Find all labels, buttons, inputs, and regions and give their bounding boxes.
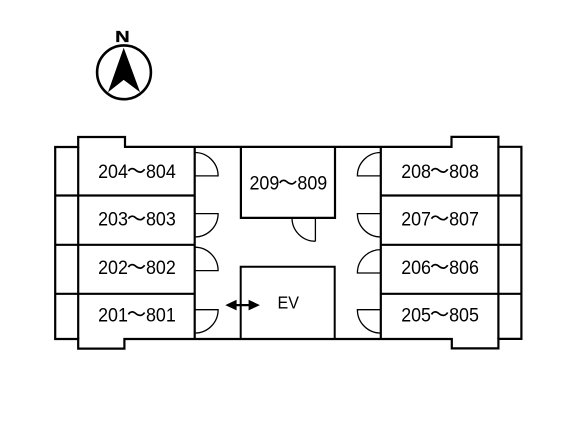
door of room 201 (leaf + swing arc) [195,310,218,333]
room label 201-801 [98,306,176,327]
room label 208-808 [401,162,479,183]
svg-text:202: 202 [98,258,128,279]
wall: left room block west wall [77,147,79,339]
svg-text:804: 804 [146,162,176,183]
svg-text:209: 209 [250,174,280,195]
wall: right room block east wall [497,147,499,339]
wave dash of label 206-806 [432,265,448,268]
svg-text:205: 205 [401,306,431,327]
room label 203-803 [98,210,176,231]
room label 204-804 [98,162,176,183]
compass circle [97,45,151,99]
wall: divider between rooms 208 and 207 [381,194,522,196]
door of room 204 (leaf + swing arc) [195,153,218,176]
wave dash of label 204-804 [128,169,144,172]
svg-text:809: 809 [297,174,327,195]
wave dash of label 207-807 [432,216,448,219]
room label 206-806 [401,258,479,279]
room label 207-807 [401,210,479,231]
door of room 205 (leaf + swing arc) [357,310,380,333]
svg-text:806: 806 [449,258,479,279]
double-headed arrow at elevator entrance [225,300,260,311]
svg-text:206: 206 [401,258,431,279]
svg-text:808: 808 [449,162,479,183]
room label 202-802 [98,258,176,279]
wall: divider between rooms 203 and 202 [55,244,195,246]
svg-text:805: 805 [449,306,479,327]
door of room 206 (leaf + swing arc) [357,250,380,273]
building outer wall outline with balcony tabs [55,137,521,349]
wave dash of label 201-801 [128,312,144,315]
wave dash of label 205-805 [432,312,448,315]
svg-text:N: N [115,29,130,46]
wall: divider between rooms 202 and 201 [55,293,195,295]
door of room 208 (leaf + swing arc) [357,153,380,176]
svg-text:207: 207 [401,210,431,231]
wave dash of label 203-803 [128,216,144,219]
svg-text:EV: EV [278,293,300,313]
svg-text:208: 208 [401,162,431,183]
room label 209-809 [250,174,328,195]
door of room 207 (leaf + swing arc) [357,214,380,237]
room label 205-805 [401,306,479,327]
elevator EV box [241,267,335,339]
svg-text:801: 801 [146,306,176,327]
room 209 box [241,147,335,218]
door of room 209 (leaf + swing arc) [292,218,315,241]
wall: left room block east wall (corridor west wall) [194,147,196,339]
compass needle [108,48,140,92]
door of room 202 (leaf + swing arc) [195,247,218,270]
svg-text:802: 802 [146,258,176,279]
svg-text:203: 203 [98,210,128,231]
wall: divider between rooms 204 and 203 [55,194,195,196]
wall: divider between rooms 207 and 206 [381,244,522,246]
door of room 203 (leaf + swing arc) [195,214,218,237]
wall: divider between rooms 206 and 205 [381,293,522,295]
wave dash of label 208-808 [432,169,448,172]
svg-text:803: 803 [146,210,176,231]
wave dash of label 209-809 [280,180,296,183]
wave dash of label 202-802 [128,265,144,268]
svg-text:201: 201 [98,306,128,327]
svg-text:807: 807 [449,210,479,231]
wall: right room block west wall (corridor east wall) [380,147,382,339]
svg-text:204: 204 [98,162,128,183]
